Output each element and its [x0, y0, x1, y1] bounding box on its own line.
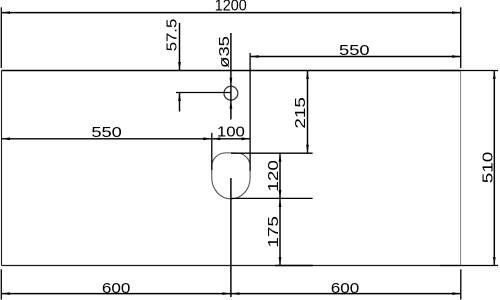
svg-text:600: 600 [102, 280, 131, 297]
dimension 175 extension overlap on bottom edge [275, 265, 313, 267]
dimension 550 left arrow left [2, 137, 11, 140]
dimension 510 bottom extension line [440, 265, 498, 267]
dimension 550 right line [250, 56, 461, 58]
dimension 600 extension line left [0, 269, 2, 299]
svg-text:100: 100 [217, 124, 245, 141]
dimension 100 arrow left [212, 137, 221, 140]
dimension 600 left arrow left [1, 292, 10, 295]
dimension 175 arrow down [279, 257, 282, 266]
dimension 57.5 measurement line to hole centre [176, 92, 231, 94]
dimension 510 arrow up [493, 71, 496, 80]
svg-text:120: 120 [265, 160, 282, 192]
dimension 550 right extension line (cutout right) [249, 53, 251, 171]
dimension 175 arrow up [279, 198, 282, 207]
dimension 550 right arrow right [452, 55, 461, 58]
dimension 1200 arrow left [2, 11, 11, 14]
dimension 215 extension line (cutout top) [231, 152, 313, 154]
wire left edge [1, 71, 3, 266]
svg-text:550: 550 [339, 42, 370, 59]
wire bottom edge [2, 265, 461, 267]
dimension 600 right arrow left [231, 292, 240, 295]
svg-text:600: 600 [331, 280, 360, 297]
dimension 600 left arrow right [222, 292, 231, 295]
dimension 57.5 lower segment [179, 93, 181, 112]
dimension 550 left arrow right [203, 137, 212, 140]
svg-text:1200: 1200 [215, 0, 247, 15]
dimension 120 extension line (cutout bottom) [231, 197, 313, 199]
dimension 600 extension line right [460, 269, 462, 299]
dimension 57.5 upper segment [179, 23, 181, 71]
dimension 600 right arrow right [452, 292, 461, 295]
dimension 600 centre line from cutout [230, 178, 232, 297]
svg-text:510: 510 [480, 152, 497, 184]
faucet hole circle Ø35 [224, 86, 238, 100]
svg-text:215: 215 [292, 97, 309, 128]
sink cutout 100x120 rounded [212, 153, 250, 199]
dimension 215 line [307, 71, 309, 154]
dimension 215 arrow up [306, 71, 309, 80]
dimension 1200 arrow right [452, 11, 461, 14]
dimension 120 arrow down [279, 190, 282, 199]
dimension 550 left / 100 shared line [2, 138, 251, 140]
dimension 100 extension line left (cutout left) [211, 133, 213, 170]
dimension 510 arrow down [493, 257, 496, 266]
dimension 215 arrow down [306, 145, 309, 154]
dimension 1200 line [2, 12, 461, 14]
dimension 57.5 arrow down [178, 62, 181, 71]
dimension 1200 extension line right [460, 7, 462, 68]
dimension 120 arrow up [279, 153, 282, 162]
svg-text:175: 175 [265, 216, 282, 248]
dimension Ø35 arrow up (below circle) [230, 100, 233, 109]
dimension 510 line [493, 71, 495, 266]
dimension 550 right arrow left [250, 55, 259, 58]
dimension 1200 extension line left [0, 7, 2, 68]
svg-text:550: 550 [91, 124, 122, 141]
dimension 100 arrow right [242, 137, 251, 140]
dimension Ø35 leader line [230, 33, 232, 120]
wire top edge [2, 70, 461, 72]
wire right edge [460, 71, 462, 266]
panel outline (1200x510 worktop) [2, 71, 461, 266]
dimension 600 line [1, 293, 461, 295]
dimension 120 line with 175 shared [279, 153, 281, 265]
svg-text:ø35: ø35 [216, 36, 233, 68]
dimension 510 top extension line [440, 70, 498, 72]
dimension Ø35 arrow down (above circle) [230, 78, 233, 87]
dimension 57.5 arrow up [178, 93, 181, 102]
svg-text:57.5: 57.5 [164, 19, 181, 52]
